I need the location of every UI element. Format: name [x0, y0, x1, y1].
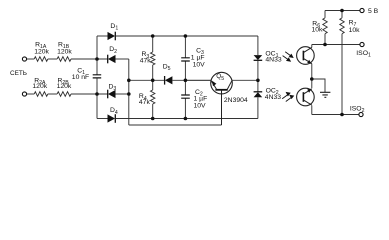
svg-text:47k: 47k — [140, 57, 152, 64]
wire node E to Q5 emitter — [185, 79, 211, 81]
svg-text:47k: 47k — [139, 99, 151, 106]
diode D2 — [107, 55, 109, 64]
transistor Q5 — [211, 72, 233, 125]
diode D4 — [108, 114, 116, 122]
resistor R4 — [151, 90, 155, 104]
wire between R2A and R2B — [48, 93, 57, 95]
junction dots — [95, 57, 99, 61]
LED of OC1 — [254, 55, 263, 60]
wire ground branch — [312, 79, 325, 92]
ground — [320, 92, 330, 97]
svg-text:1 µF: 1 µF — [191, 55, 205, 62]
terminal 5V — [360, 8, 364, 12]
resistor R6 — [323, 18, 327, 34]
capacitor C1 — [93, 75, 102, 78]
wire D5 to node E — [172, 79, 211, 81]
svg-text:120k: 120k — [57, 48, 72, 55]
wire R2B to D3 — [71, 93, 108, 95]
resistor R3 — [151, 52, 155, 65]
diode D1 — [108, 32, 116, 40]
svg-text:120k: 120k — [34, 48, 49, 55]
svg-text:5 В: 5 В — [368, 8, 379, 15]
wire mid row from V- to D5 — [129, 79, 165, 81]
wire D3 to V- vertical — [116, 93, 129, 95]
wire LED column middle — [257, 61, 259, 92]
resistor R2A — [34, 92, 48, 97]
wire D4 row left — [97, 118, 108, 120]
terminal ISO2 — [359, 112, 363, 116]
wire OC1 collector up to ISO1 line — [311, 45, 313, 48]
resistor R4 leads — [152, 80, 154, 90]
phototransistor of OC1 — [297, 47, 315, 65]
node B vertical (x97) lower — [96, 78, 98, 118]
svg-text:1 µF: 1 µF — [194, 95, 208, 102]
wire LED column bottom — [257, 97, 259, 118]
wire OC2 collector down to ISO2 line — [311, 105, 313, 114]
capacitor C3 leads — [184, 36, 186, 58]
svg-text:4N33: 4N33 — [265, 57, 281, 64]
wire ISO2 line — [312, 114, 359, 116]
wire D4 row to OC2 corner — [116, 118, 258, 120]
wire base return line y125 — [129, 124, 222, 126]
wire between R1A and R1B — [48, 58, 57, 60]
capacitor C2 — [181, 95, 190, 98]
terminal ISO1 — [360, 42, 364, 46]
wire D1 row left — [97, 35, 108, 37]
phototransistor of OC2 — [297, 88, 315, 106]
wire OC1 emitter down — [311, 64, 313, 89]
wire ISO1 line — [312, 44, 360, 46]
wire D2 to corner — [116, 58, 129, 60]
diode D3 — [107, 90, 109, 99]
svg-text:10 nF: 10 nF — [72, 74, 89, 81]
V- vertical (x128.8) — [128, 59, 130, 125]
svg-text:120k: 120k — [32, 83, 47, 90]
resistor R7 leads — [341, 11, 343, 18]
wire Q5 collector to LED column — [232, 79, 258, 81]
wire top rail left segment — [27, 58, 35, 60]
svg-text:2N3904: 2N3904 — [224, 97, 248, 104]
wire LED column top — [257, 36, 259, 55]
capacitor C3 — [181, 58, 190, 61]
svg-text:4N33: 4N33 — [265, 94, 281, 101]
node A vertical (x97) upper — [96, 36, 98, 75]
LED of OC2 — [254, 91, 263, 93]
svg-text:СЕТЬ: СЕТЬ — [10, 70, 27, 77]
light arrows OC2 — [282, 93, 293, 102]
resistor R2B — [57, 92, 71, 97]
svg-text:10k: 10k — [312, 27, 324, 34]
resistor R3 leads — [152, 36, 154, 52]
diode D5 — [164, 76, 166, 85]
terminal CETb bottom — [22, 92, 26, 96]
capacitor C2 leads — [184, 80, 186, 95]
resistor R6 leads — [324, 11, 326, 18]
svg-text:10V: 10V — [193, 62, 206, 69]
svg-text:120k: 120k — [57, 83, 72, 90]
wire D1 row to OC1 corner — [116, 35, 258, 37]
svg-text:10V: 10V — [194, 102, 207, 109]
terminal CETb top — [22, 57, 26, 61]
resistor R7 — [340, 18, 344, 34]
wire bottom rail left segment — [27, 93, 35, 95]
resistor R1B — [57, 57, 71, 62]
wire 5V rail — [325, 10, 360, 12]
light arrows OC1 — [283, 52, 293, 61]
resistor R1A — [34, 57, 48, 62]
svg-text:10k: 10k — [349, 27, 361, 34]
wire R1B to D2 — [71, 58, 108, 60]
